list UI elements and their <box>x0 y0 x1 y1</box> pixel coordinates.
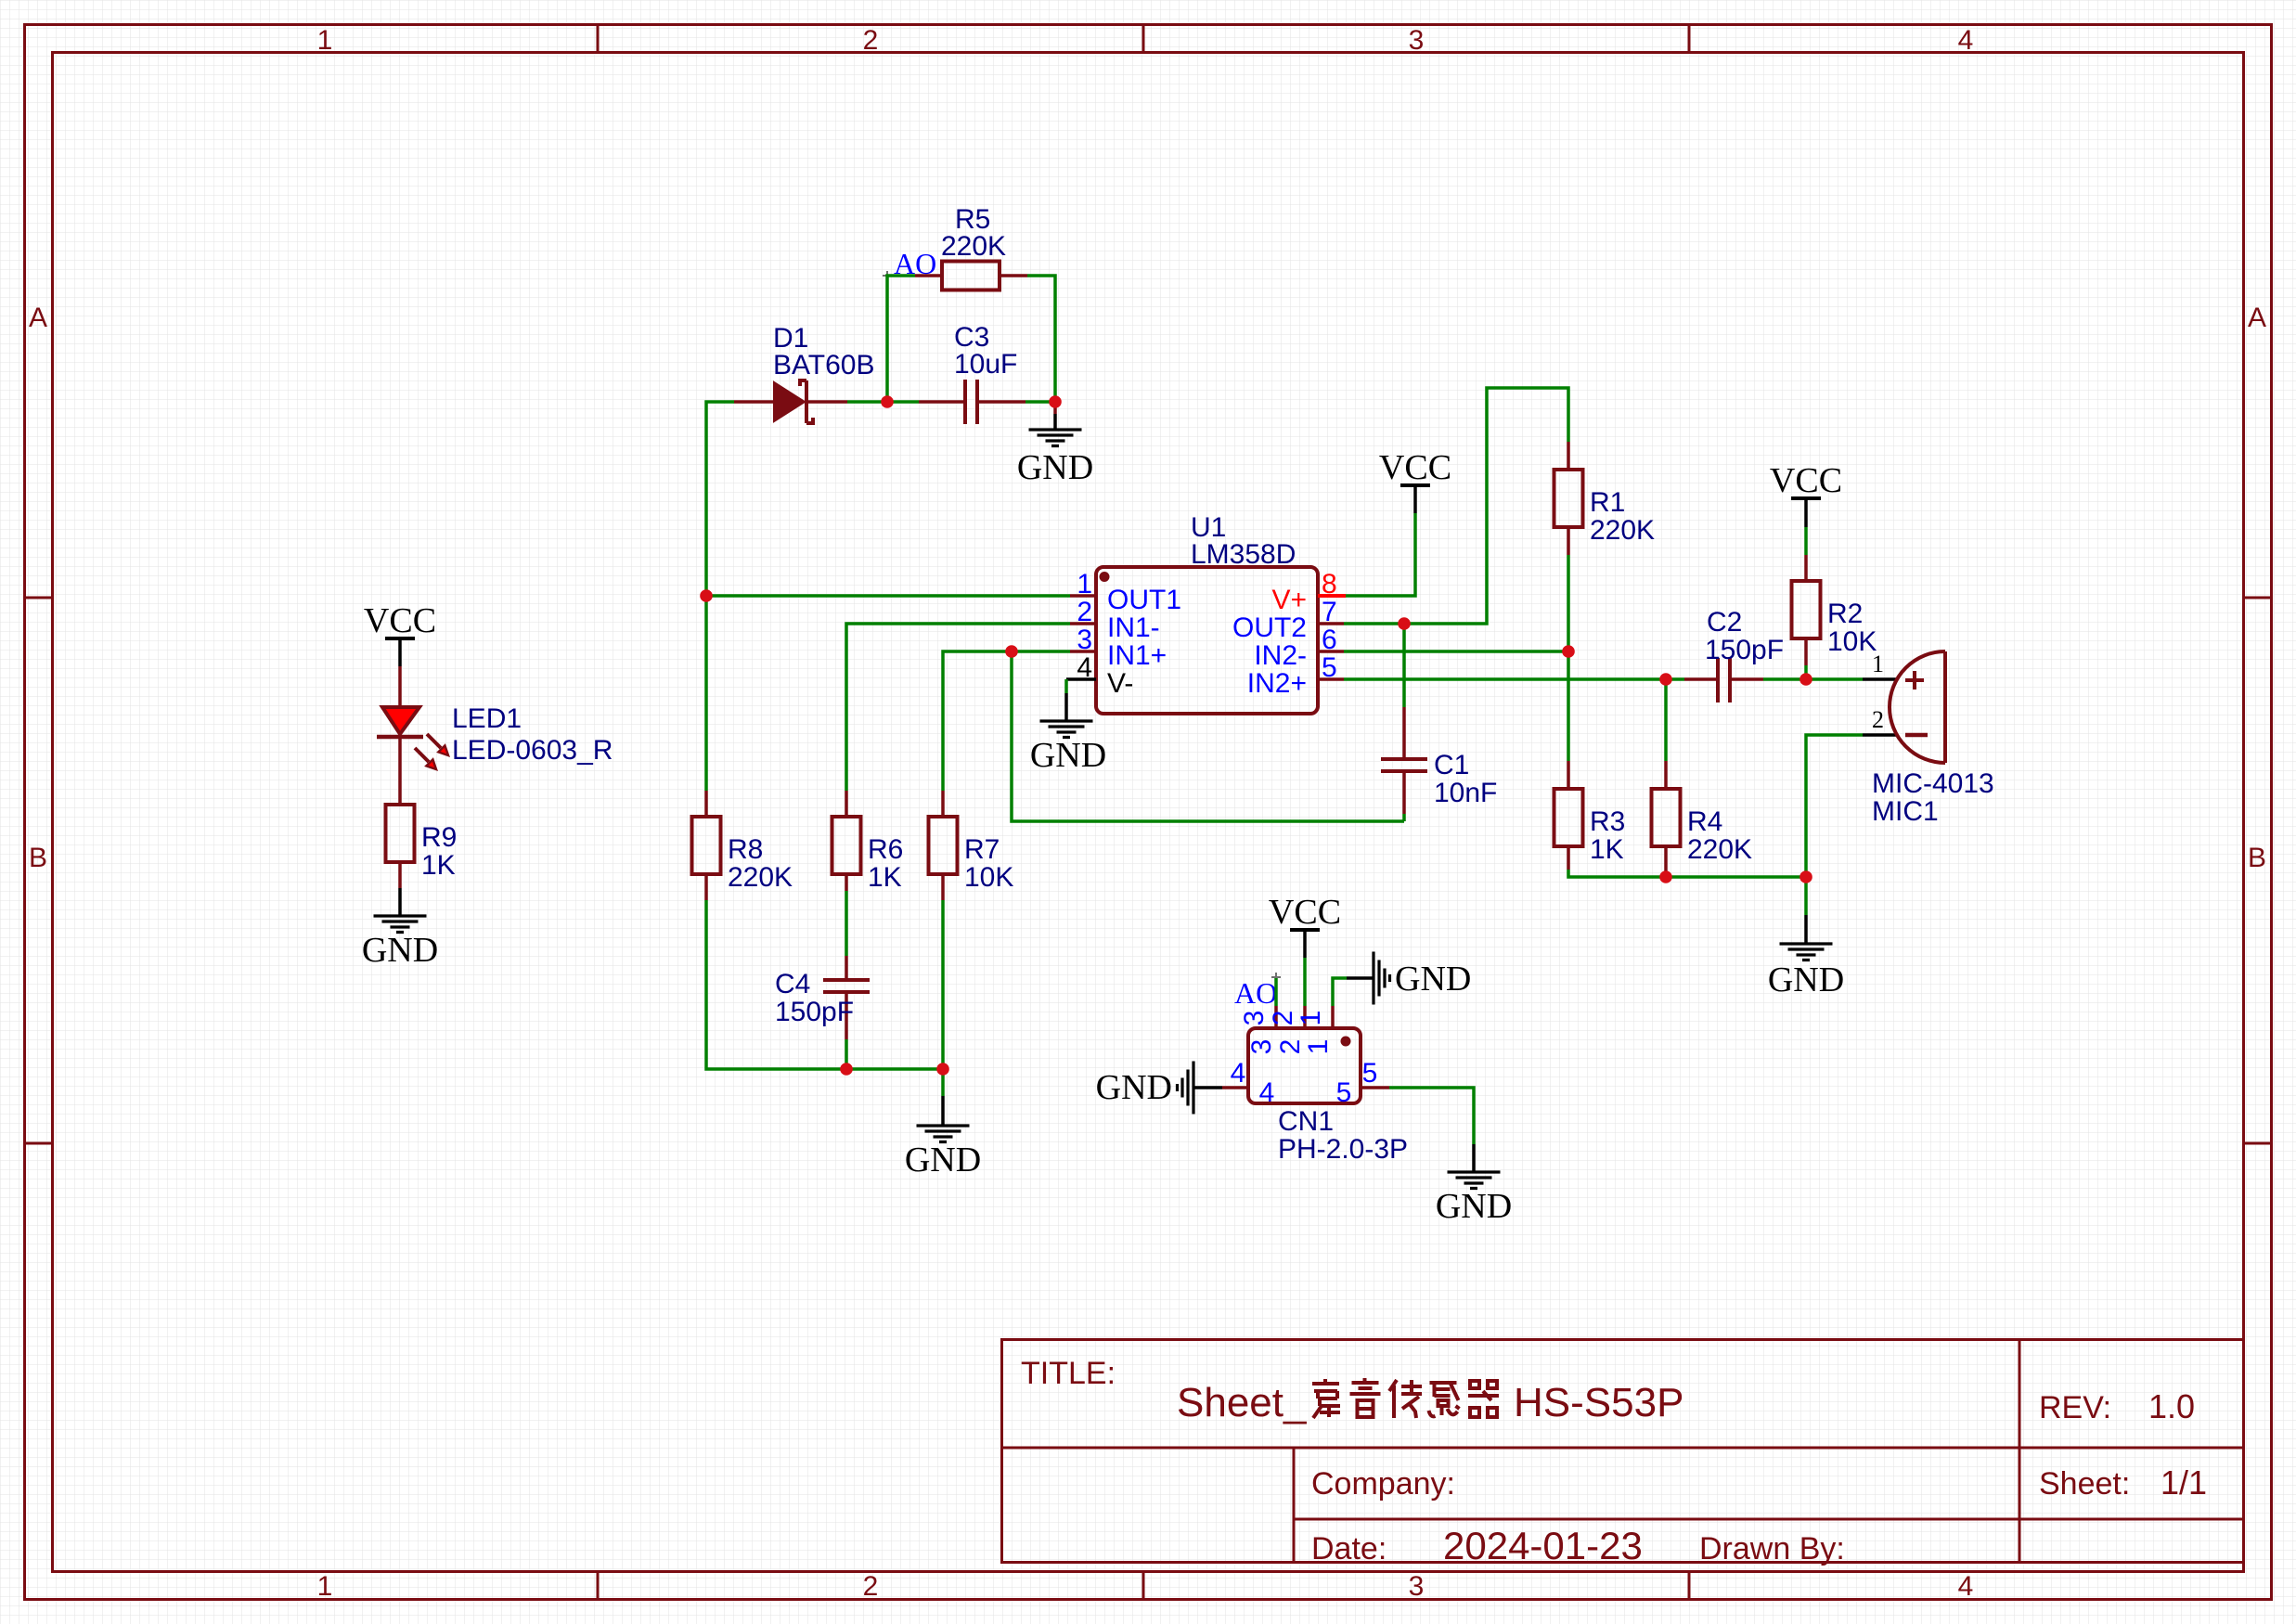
capacitor C1 <box>1381 624 1497 821</box>
ground GND (U1 V-) <box>1030 693 1106 775</box>
svg-text:VCC: VCC <box>1269 893 1341 932</box>
wire D1 cathode to node <box>847 400 887 404</box>
wire U1 pin1 net <box>706 594 1070 598</box>
wire D1 anode to R8 column <box>706 402 734 791</box>
svg-text:C4: C4 <box>775 969 810 999</box>
capacitor C4 <box>775 891 870 1069</box>
svg-text:LED1: LED1 <box>452 703 522 734</box>
resistor R4 <box>1652 761 1753 877</box>
svg-text:LED-0603_R: LED-0603_R <box>452 735 613 766</box>
svg-text:1: 1 <box>1303 1039 1334 1055</box>
wire R7 gnd stub <box>941 1069 945 1096</box>
ground GND (CN1 pin4, sideways) <box>1096 1062 1222 1115</box>
svg-text:2: 2 <box>1872 706 1884 733</box>
power flag VCC (U1 pin8) <box>1379 448 1451 513</box>
svg-text:10K: 10K <box>964 862 1013 893</box>
svg-text:4: 4 <box>1077 652 1092 683</box>
svg-text:2: 2 <box>1275 1039 1306 1055</box>
resistor R3 <box>1554 761 1626 870</box>
junction node R4/C2 <box>1659 673 1672 686</box>
svg-text:150pF: 150pF <box>775 997 854 1027</box>
title block CJK glyphs (声音传感器) approximated <box>1312 1378 1499 1418</box>
svg-text:IN1-: IN1- <box>1107 612 1160 643</box>
svg-text:1K: 1K <box>421 850 456 881</box>
svg-text:Sheet_: Sheet_ <box>1177 1380 1307 1425</box>
svg-text:1K: 1K <box>868 862 902 893</box>
junction node R4 bottom <box>1659 870 1672 883</box>
svg-text:LM358D: LM358D <box>1191 539 1296 570</box>
wire bottom left rail <box>706 900 943 1069</box>
junction node D1/C3 <box>881 395 894 408</box>
op-amp U1 <box>1066 512 1346 714</box>
wire node up to R5 left <box>887 276 915 402</box>
junction node U1 pin7/C1 <box>1398 617 1411 630</box>
svg-text:R4: R4 <box>1687 806 1722 837</box>
svg-text:220K: 220K <box>941 231 1006 262</box>
junction node R7 bottom <box>936 1063 949 1076</box>
power flag VCC (R2) <box>1770 461 1842 527</box>
wire VCC to R2 <box>1804 527 1808 555</box>
svg-text:3: 3 <box>1077 625 1092 655</box>
svg-text:IN2-: IN2- <box>1254 640 1307 671</box>
svg-text:5: 5 <box>1336 1077 1352 1108</box>
ground GND (CN1 pin1, sideways) <box>1347 952 1471 1005</box>
svg-text:GND: GND <box>905 1141 981 1179</box>
svg-text:BAT60B: BAT60B <box>773 350 875 380</box>
svg-text:B: B <box>2248 843 2266 873</box>
junction node pin3 feedback <box>1005 645 1018 658</box>
svg-text:220K: 220K <box>1687 834 1752 865</box>
wire mic pin1 <box>1806 677 1863 681</box>
svg-text:GND: GND <box>362 931 438 970</box>
svg-text:2: 2 <box>1268 1011 1298 1026</box>
svg-text:1: 1 <box>1296 1011 1326 1026</box>
svg-text:220K: 220K <box>728 862 793 893</box>
capacitor C3 <box>887 322 1055 424</box>
svg-text:GND: GND <box>1030 736 1106 775</box>
wire R2 bottom to mic node <box>1804 665 1808 679</box>
net label AO <box>883 247 936 280</box>
svg-text:2: 2 <box>863 25 879 56</box>
svg-text:4: 4 <box>1259 1077 1275 1108</box>
wire U1 pin8 to VCC <box>1346 513 1415 596</box>
svg-text:Company:: Company: <box>1311 1466 1455 1502</box>
svg-text:3: 3 <box>1246 1039 1277 1055</box>
ground GND (C3 node) <box>1017 402 1093 487</box>
wire CN1 pin1 to gnd <box>1333 978 1347 1006</box>
svg-text:CN1: CN1 <box>1278 1106 1334 1137</box>
svg-text:1/1: 1/1 <box>2161 1463 2207 1502</box>
connector CN1 <box>1222 1006 1408 1165</box>
svg-text:1K: 1K <box>1590 834 1624 865</box>
svg-text:R9: R9 <box>421 822 457 853</box>
svg-text:OUT2: OUT2 <box>1232 612 1307 643</box>
svg-text:TITLE:: TITLE: <box>1021 1356 1116 1391</box>
svg-text:Drawn By:: Drawn By: <box>1699 1531 1845 1566</box>
svg-text:REV:: REV: <box>2039 1390 2111 1425</box>
resistor R7 <box>929 791 1014 900</box>
svg-text:3: 3 <box>1409 25 1425 56</box>
wire CN1 pin2 VCC <box>1303 958 1307 1006</box>
ground GND (LED branch) <box>362 888 438 970</box>
ground GND (CN1 pin5) <box>1436 1144 1512 1226</box>
wire R7 bottom <box>941 900 945 1069</box>
svg-text:C1: C1 <box>1434 750 1469 780</box>
svg-text:4: 4 <box>1958 25 1974 56</box>
svg-text:B: B <box>29 843 47 873</box>
svg-text:R7: R7 <box>964 834 1000 865</box>
wire U1 pin6 to R1 bottom node <box>1344 650 1568 653</box>
svg-text:Sheet:: Sheet: <box>2039 1466 2130 1502</box>
ground GND (R7/C4 rail) <box>905 1096 981 1179</box>
wire U1 pin3 net to R7 <box>943 651 1070 791</box>
resistor R8 <box>692 791 793 900</box>
svg-text:V-: V- <box>1107 668 1133 699</box>
wire feedback node down to C1 bottom <box>1012 651 1404 821</box>
svg-text:150pF: 150pF <box>1705 635 1784 665</box>
svg-text:220K: 220K <box>1590 515 1655 546</box>
svg-text:VCC: VCC <box>1379 448 1451 487</box>
svg-text:R6: R6 <box>868 834 903 865</box>
wire R4 top branch <box>1664 679 1668 761</box>
svg-text:4: 4 <box>1958 1571 1974 1602</box>
svg-text:GND: GND <box>1436 1187 1512 1226</box>
svg-text:GND: GND <box>1017 448 1093 487</box>
LED LED1 <box>377 666 613 805</box>
svg-text:AO: AO <box>1234 976 1277 1010</box>
resistor R6 <box>832 791 904 893</box>
power flag VCC (CN1) <box>1269 893 1341 958</box>
power flag VCC (LED branch) <box>364 601 436 666</box>
wire CN1 pin3 AO stub <box>1274 978 1278 1006</box>
wire mic ground stub <box>1804 877 1808 915</box>
svg-text:R3: R3 <box>1590 806 1625 837</box>
capacitor C2 <box>1684 607 1806 702</box>
net label AO (CN1) <box>1234 973 1281 1010</box>
title block text TITLE: <box>1021 1356 2207 1567</box>
wire U1 pin2 net to R6 <box>846 624 1070 791</box>
frame row labels right <box>2248 303 2266 873</box>
svg-text:GND: GND <box>1395 960 1471 999</box>
junction node C4 bottom <box>840 1063 853 1076</box>
svg-text:IN2+: IN2+ <box>1247 668 1307 699</box>
resistor R2 <box>1792 555 1877 665</box>
frame column labels bottom <box>317 1571 1974 1602</box>
svg-text:OUT1: OUT1 <box>1107 585 1181 615</box>
wire U1 pin4 stub <box>1064 679 1068 693</box>
svg-text:5: 5 <box>1322 652 1337 683</box>
svg-text:MIC1: MIC1 <box>1872 796 1939 827</box>
wire CN1 pin5 to gnd <box>1389 1088 1474 1144</box>
wire U1 pin5 to C2 node <box>1344 677 1684 681</box>
svg-text:1: 1 <box>317 25 333 56</box>
svg-text:HS-S53P: HS-S53P <box>1514 1380 1683 1425</box>
svg-text:4: 4 <box>1231 1058 1246 1089</box>
svg-text:2024-01-23: 2024-01-23 <box>1443 1524 1643 1567</box>
svg-text:3: 3 <box>1409 1571 1425 1602</box>
svg-text:1.0: 1.0 <box>2148 1387 2195 1425</box>
svg-text:2: 2 <box>1077 597 1092 627</box>
svg-text:V+: V+ <box>1271 585 1307 615</box>
svg-text:10uF: 10uF <box>954 349 1017 380</box>
svg-text:2: 2 <box>863 1571 879 1602</box>
junction node pin6/R1 <box>1562 645 1575 658</box>
svg-text:VCC: VCC <box>1770 461 1842 500</box>
junction node R2/mic <box>1799 673 1812 686</box>
wire mic pin2 to ground rail <box>1806 735 1863 877</box>
svg-text:C2: C2 <box>1707 607 1742 638</box>
frame row labels left <box>29 303 47 873</box>
resistor R5 <box>915 204 1027 290</box>
svg-text:1: 1 <box>1077 569 1092 599</box>
svg-text:3: 3 <box>1239 1011 1270 1026</box>
junction node rail/mic gnd <box>1799 870 1812 883</box>
svg-text:R2: R2 <box>1827 599 1863 629</box>
svg-text:R1: R1 <box>1590 487 1625 518</box>
svg-text:A: A <box>2248 303 2266 333</box>
microphone MIC1 <box>1863 651 1994 827</box>
junction node C3/GND <box>1049 395 1062 408</box>
title block frame <box>1002 1340 2244 1563</box>
svg-text:Date:: Date: <box>1311 1531 1387 1566</box>
svg-text:7: 7 <box>1322 597 1337 627</box>
svg-text:1: 1 <box>317 1571 333 1602</box>
svg-text:10nF: 10nF <box>1434 778 1497 808</box>
wire R1 bottom to R3 top <box>1567 555 1570 761</box>
frame column labels top <box>317 25 1974 56</box>
svg-text:PH-2.0-3P: PH-2.0-3P <box>1278 1134 1408 1165</box>
svg-text:IN1+: IN1+ <box>1107 640 1167 671</box>
svg-text:10K: 10K <box>1827 626 1877 657</box>
diode D1 <box>734 323 875 423</box>
svg-text:A: A <box>29 303 47 333</box>
svg-text:GND: GND <box>1768 960 1844 999</box>
svg-text:8: 8 <box>1322 569 1337 599</box>
svg-text:R8: R8 <box>728 834 763 865</box>
wire U1 pin7 to R1 top <box>1344 388 1568 624</box>
ground GND (mic) <box>1768 915 1844 999</box>
svg-text:VCC: VCC <box>364 601 436 640</box>
wire R5 right down to C3 right node <box>1027 276 1055 402</box>
svg-text:GND: GND <box>1096 1068 1172 1107</box>
junction node U1 pin1 <box>700 589 713 602</box>
resistor R9 <box>386 805 458 888</box>
wire bottom bias rail <box>1568 870 1806 877</box>
svg-text:1: 1 <box>1872 651 1884 677</box>
svg-text:MIC-4013: MIC-4013 <box>1872 768 1994 799</box>
svg-text:6: 6 <box>1322 625 1337 655</box>
svg-text:5: 5 <box>1362 1058 1378 1089</box>
resistor R1 <box>1554 442 1656 555</box>
